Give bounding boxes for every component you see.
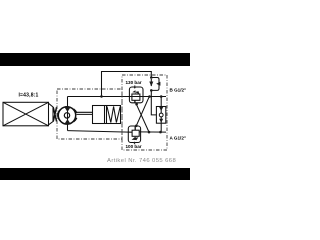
svg-text:130 bar: 130 bar bbox=[125, 80, 141, 85]
svg-text:Artikel Nr. 746 055 668: Artikel Nr. 746 055 668 bbox=[107, 158, 176, 164]
svg-text:100 bar: 100 bar bbox=[125, 144, 141, 149]
svg-text:A G1/2": A G1/2" bbox=[170, 136, 187, 141]
svg-text:I=43,8:1: I=43,8:1 bbox=[18, 93, 38, 99]
svg-text:B G1/2": B G1/2" bbox=[170, 88, 187, 93]
